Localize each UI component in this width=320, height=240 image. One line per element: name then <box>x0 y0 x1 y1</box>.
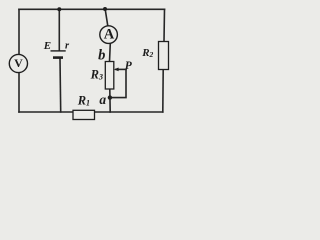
svg-text:a: a <box>99 92 106 107</box>
wire ammeter branch to rheostat <box>109 43 112 61</box>
wire ammeter branch upper <box>105 9 108 26</box>
wire rheostat bottom to node a <box>109 89 111 112</box>
wiper arrowhead P <box>114 68 119 72</box>
node junction dot top battery <box>57 7 61 11</box>
rheostat R3 box <box>105 62 114 90</box>
resistor R1 box <box>73 110 95 119</box>
wire right rail upper <box>163 9 166 41</box>
paper background <box>0 0 182 124</box>
wire battery branch lower <box>59 59 62 113</box>
battery E positive plate <box>51 50 66 52</box>
battery E negative plate <box>53 56 63 59</box>
wire bottom rail <box>19 111 163 113</box>
node a junction dot <box>108 95 112 99</box>
voltmeter V <box>9 54 27 72</box>
ammeter A <box>100 26 118 44</box>
wire wiper arm horizontal <box>116 68 126 70</box>
svg-text:b: b <box>98 48 105 64</box>
svg-text:A: A <box>104 26 115 42</box>
resistor R2 box <box>159 42 169 70</box>
node junction dot top ammeter <box>103 7 107 11</box>
wire left rail <box>18 9 20 112</box>
wire top rail <box>19 8 165 10</box>
wire right rail lower <box>162 70 164 113</box>
svg-text:E: E <box>43 40 51 52</box>
wire wiper down to node a <box>110 69 126 97</box>
svg-text:V: V <box>14 56 23 70</box>
wire battery branch upper <box>58 9 60 50</box>
svg-text:P: P <box>125 60 133 72</box>
